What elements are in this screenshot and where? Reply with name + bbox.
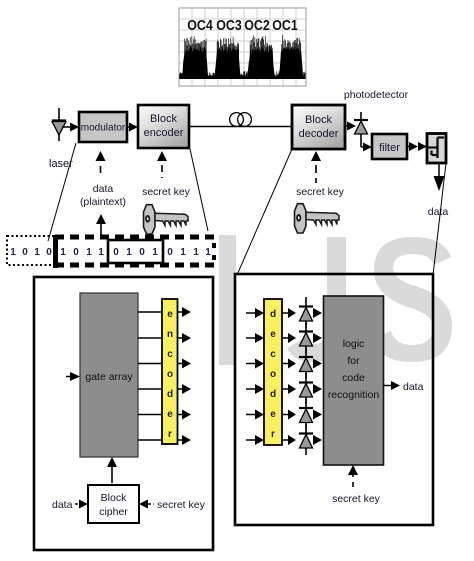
photodiode row at y=389 — [299, 373, 322, 404]
fiber coil — [230, 113, 252, 127]
wire gate array to encoder row 1 — [138, 311, 162, 313]
svg-text:d: d — [270, 389, 276, 400]
wire laser to modulator — [62, 126, 71, 128]
right detail box — [235, 274, 433, 525]
binary stream dotted block — [7, 236, 55, 265]
arrow secret key into logic — [348, 465, 358, 487]
scope baseline — [180, 76, 305, 80]
binary stream dashed bottom — [55, 263, 214, 268]
noise burst 3 — [248, 46, 275, 78]
svg-text:1: 1 — [10, 247, 16, 258]
svg-text:d: d — [167, 389, 173, 400]
arrow block cipher to gate array — [107, 457, 117, 483]
svg-text:1: 1 — [60, 247, 66, 258]
photodiode row at y=338 — [299, 322, 322, 353]
svg-text:filter: filter — [379, 142, 400, 154]
svg-text:0: 0 — [73, 247, 79, 258]
Block decoder U2 — [292, 105, 345, 149]
modulator box — [79, 112, 127, 142]
svg-text:logic: logic — [343, 338, 365, 350]
wire decoder to photodetector — [345, 125, 348, 127]
svg-text:gate array: gate array — [85, 371, 133, 383]
end delimiter dots — [212, 243, 216, 248]
svg-text:data: data — [93, 183, 114, 195]
wire threshold to data out — [434, 163, 445, 191]
svg-text:n: n — [167, 329, 173, 340]
svg-text:Block: Block — [101, 492, 127, 504]
left detail box — [34, 277, 213, 550]
arrow into gate array — [66, 372, 80, 381]
svg-text:0: 0 — [139, 247, 145, 258]
encoder output arrows — [178, 307, 192, 445]
svg-text:e: e — [270, 329, 276, 340]
svg-text:e: e — [167, 309, 173, 320]
decoder to photodiode wires — [282, 313, 289, 440]
svg-text:1: 1 — [152, 247, 158, 258]
key icon left — [144, 205, 189, 234]
noise burst 4 — [279, 46, 303, 78]
scope grid — [179, 8, 306, 86]
svg-text:o: o — [167, 369, 173, 380]
wire modulator to Block encoder — [127, 126, 130, 128]
noise burst 1 — [182, 45, 208, 78]
key icon right — [295, 204, 340, 233]
threshold device box — [427, 134, 446, 164]
photodiode row at y=440 — [299, 424, 322, 455]
svg-text:secret key: secret key — [142, 186, 191, 198]
fiber wire encoder to decoder — [189, 126, 292, 128]
decoder block (yellow) — [264, 299, 282, 445]
svg-text:0: 0 — [46, 247, 52, 258]
svg-text:OC2: OC2 — [244, 18, 270, 34]
svg-text:0: 0 — [22, 247, 28, 258]
encoder block (yellow) — [162, 299, 178, 444]
svg-text:recognition: recognition — [328, 389, 380, 401]
svg-text:1: 1 — [86, 247, 92, 258]
zoom line encoder to binary row — [190, 149, 208, 231]
gate array box — [80, 293, 138, 457]
photodiode row at y=414.5 — [299, 399, 322, 430]
decoder input arrows — [246, 308, 264, 445]
svg-text:Block: Block — [305, 114, 332, 126]
svg-text:1: 1 — [193, 247, 199, 258]
oscilloscope trace image — [179, 8, 306, 86]
binary stream dashed top — [55, 235, 214, 240]
block delimiter bar — [53, 235, 58, 268]
wire filter to threshold — [407, 142, 427, 151]
svg-text:c: c — [167, 349, 173, 360]
Block cipher box — [88, 485, 139, 523]
svg-text:r: r — [271, 429, 275, 440]
svg-text:Block: Block — [150, 113, 177, 125]
svg-text:secret key: secret key — [157, 499, 206, 511]
svg-text:d: d — [270, 309, 276, 320]
arrow logic to data — [384, 381, 401, 390]
label secret key into cipher — [139, 500, 154, 509]
svg-text:secret key: secret key — [296, 186, 345, 198]
svg-text:secret key: secret key — [332, 493, 381, 505]
svg-text:e: e — [270, 409, 276, 420]
dashed arrow secret key into decoder — [311, 151, 321, 183]
binary digits — [10, 247, 211, 258]
svg-text:OC4: OC4 — [187, 18, 213, 34]
svg-text:o: o — [270, 369, 276, 380]
svg-text:modulator: modulator — [81, 123, 126, 134]
dashed arrow data into modulator — [96, 151, 106, 178]
photodetector diode D1 — [354, 112, 372, 152]
svg-text:code: code — [342, 372, 365, 384]
svg-text:cipher: cipher — [99, 506, 128, 518]
svg-text:e: e — [167, 409, 173, 420]
svg-text:0: 0 — [113, 247, 119, 258]
svg-text:data: data — [403, 381, 424, 393]
svg-text:data: data — [428, 206, 449, 218]
svg-text:OC3: OC3 — [216, 18, 242, 34]
zoom line decoder to right box — [237, 149, 292, 275]
svg-text:1: 1 — [98, 247, 104, 258]
scope frame — [179, 8, 306, 86]
svg-text:1: 1 — [126, 247, 132, 258]
arrow binary row to plaintext — [96, 214, 106, 235]
zoom line modulator to binary row — [48, 143, 76, 241]
dashed arrow secret key into encoder — [157, 151, 167, 178]
Block encoder U1 — [138, 105, 189, 148]
svg-text:for: for — [347, 355, 360, 367]
svg-text:decoder: decoder — [299, 128, 339, 140]
scope labels OC4 OC3 OC2 OC1 — [187, 18, 298, 34]
svg-text:r: r — [168, 429, 172, 440]
svg-text:1: 1 — [205, 247, 211, 258]
baseline noise — [180, 71, 306, 79]
svg-text:photodetector: photodetector — [344, 89, 409, 101]
svg-text:(plaintext): (plaintext) — [80, 196, 126, 208]
logic for code recognition box — [324, 296, 384, 465]
noise burst 2 — [215, 47, 241, 78]
svg-text:1: 1 — [34, 247, 40, 258]
svg-text:c: c — [270, 349, 276, 360]
svg-text:encoder: encoder — [144, 127, 184, 139]
laser diode symbol — [52, 108, 66, 141]
svg-text:0: 0 — [167, 247, 173, 258]
zoom line threshold to right box — [433, 163, 446, 275]
svg-text:OC1: OC1 — [272, 18, 298, 34]
filter box — [372, 134, 407, 159]
wires gate array to encoder block — [138, 312, 162, 440]
photodiode row at y=313 — [299, 297, 322, 328]
watermark IJS — [219, 235, 452, 365]
current block box — [108, 240, 163, 263]
svg-text:data: data — [52, 499, 73, 511]
svg-text:1: 1 — [180, 247, 186, 258]
photodiode row at y=363.5 — [299, 348, 322, 379]
